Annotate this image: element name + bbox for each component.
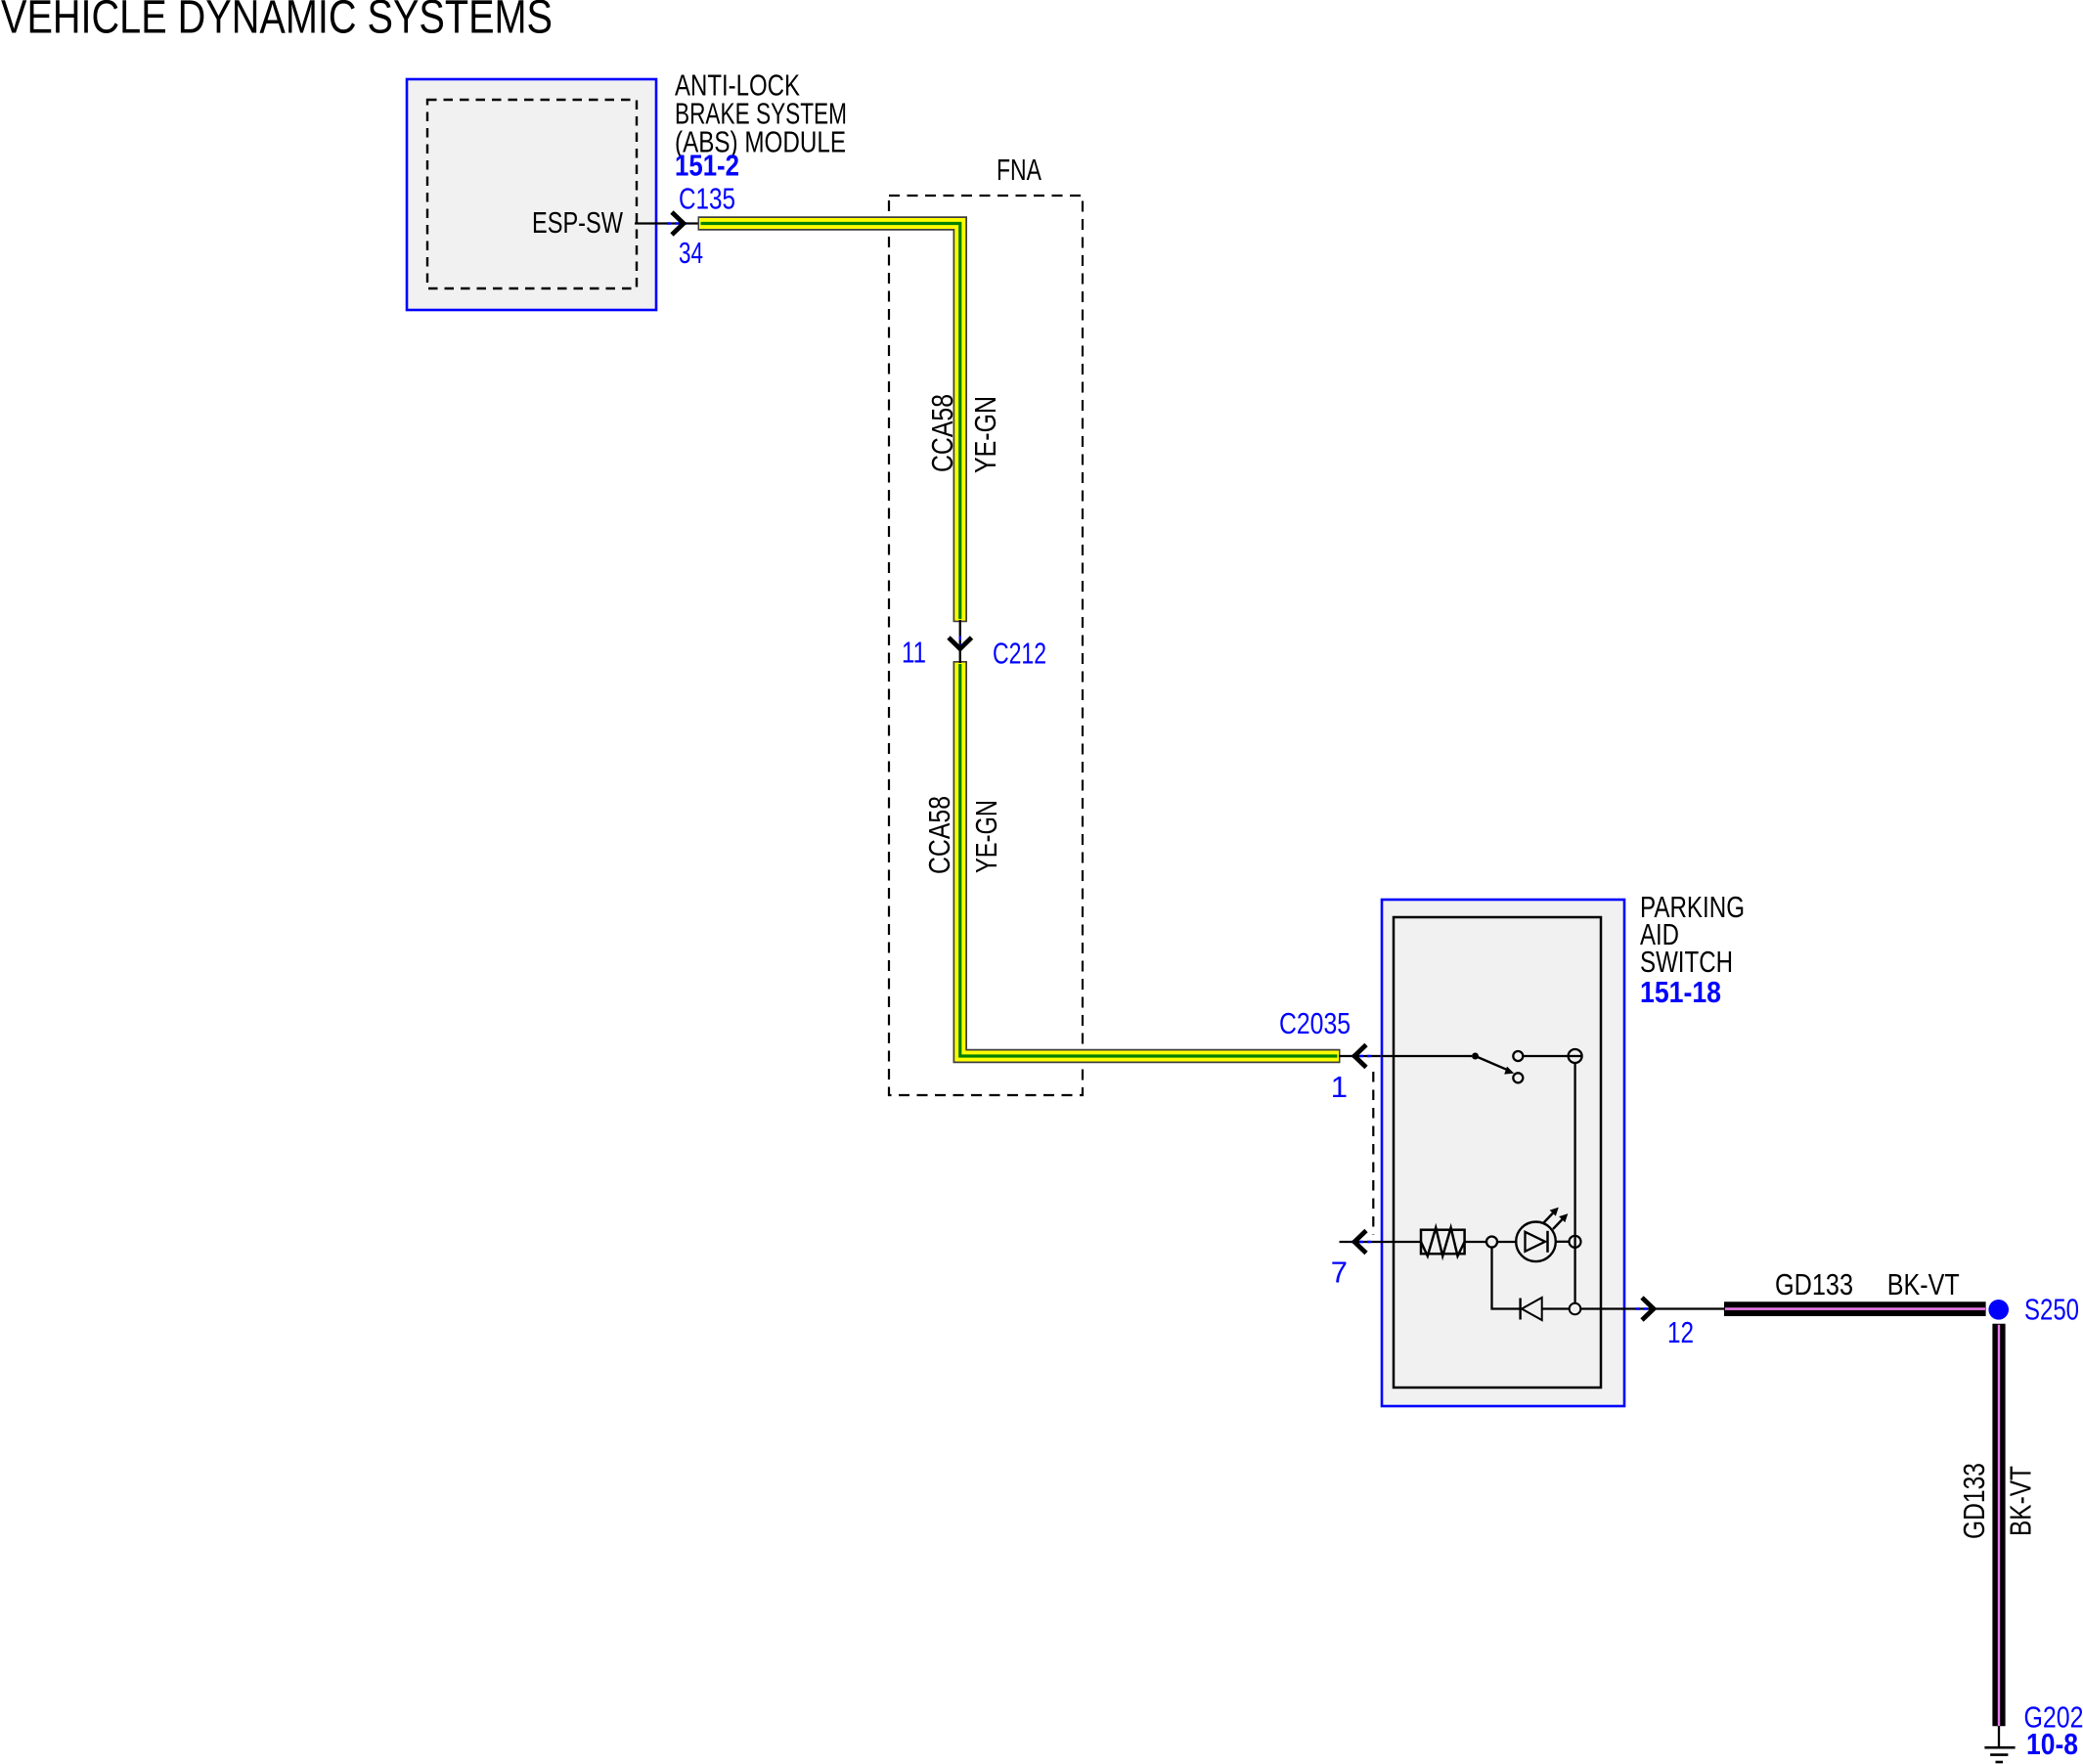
svg-text:BK-VT: BK-VT bbox=[2004, 1466, 2038, 1536]
svg-text:FNA: FNA bbox=[997, 153, 1041, 187]
diode cathode bar bbox=[1519, 1299, 1521, 1320]
svg-text:S250: S250 bbox=[2024, 1293, 2079, 1327]
connector C212 blue dash bbox=[959, 637, 962, 652]
FNA dashed box bbox=[889, 196, 1083, 1095]
parking aid switch inner box bbox=[1394, 917, 1601, 1388]
wire resistor to junction bbox=[1465, 1241, 1486, 1243]
switch upper contact bbox=[1513, 1051, 1523, 1061]
wire GD133 BK-VT vertical bbox=[1992, 1324, 2005, 1727]
svg-text:ESP-SW: ESP-SW bbox=[532, 205, 624, 240]
splice S250 bbox=[1988, 1300, 2009, 1320]
pin 1 lead into switch bbox=[1339, 1055, 1475, 1057]
svg-text:151-2: 151-2 bbox=[675, 149, 739, 183]
diode triangle bbox=[1522, 1298, 1542, 1320]
switch lower contact bbox=[1513, 1073, 1523, 1082]
svg-text:GD133: GD133 bbox=[1775, 1267, 1853, 1301]
svg-text:34: 34 bbox=[679, 236, 703, 270]
switch wire pin1 row inside box bbox=[1382, 1055, 1472, 1057]
switch lever bbox=[1476, 1056, 1510, 1071]
wire LED to terminal circle B bbox=[1556, 1241, 1570, 1243]
wire junction to LED bbox=[1497, 1241, 1518, 1243]
svg-text:C212: C212 bbox=[993, 637, 1046, 671]
svg-text:CCA58: CCA58 bbox=[922, 796, 956, 874]
wire GD133 BK-VT horizontal bbox=[1724, 1301, 1986, 1316]
ABS module box 151-2 bbox=[407, 79, 656, 310]
pin 12 lead out bbox=[1580, 1307, 1724, 1309]
svg-text:YE-GN: YE-GN bbox=[968, 396, 1002, 473]
connector C135 arrow bbox=[672, 212, 684, 235]
pin 7 lead bbox=[1340, 1241, 1422, 1243]
switch common dot bbox=[1472, 1053, 1479, 1060]
wire YE-GN lower segment bbox=[960, 661, 1341, 1056]
wire pin 34 lead bbox=[635, 222, 700, 224]
ground G202 lead bbox=[1998, 1726, 2000, 1747]
svg-text:BK-VT: BK-VT bbox=[1887, 1267, 1960, 1301]
connector arrow pin 12 bbox=[1642, 1298, 1654, 1320]
parking aid switch box 151-18 bbox=[1382, 900, 1624, 1406]
LED arrow 1 bbox=[1544, 1213, 1554, 1223]
wire contact to terminal bbox=[1523, 1055, 1568, 1057]
connector C2035 dashed link pin1-pin7 bbox=[1372, 1072, 1374, 1235]
terminal circle B bbox=[1570, 1236, 1581, 1248]
svg-text:SWITCH: SWITCH bbox=[1640, 945, 1733, 979]
svg-text:C2035: C2035 bbox=[1279, 1006, 1351, 1040]
connector C2035 blue dash pin 7 bbox=[1352, 1241, 1372, 1244]
switch lever arrowhead bbox=[1504, 1067, 1514, 1075]
ground symbol bbox=[1984, 1746, 2015, 1749]
right vertical wire inside switch bbox=[1573, 1063, 1575, 1303]
svg-text:151-18: 151-18 bbox=[1640, 975, 1721, 1009]
wire junction A down to diode row bbox=[1492, 1248, 1520, 1309]
resistor bbox=[1421, 1230, 1465, 1255]
wire diode to junction C bbox=[1542, 1307, 1570, 1309]
svg-text:CCA58: CCA58 bbox=[925, 394, 959, 472]
connector blue dash pin 12 bbox=[1636, 1307, 1657, 1310]
LED arrow 2 bbox=[1553, 1219, 1563, 1230]
junction circle C bbox=[1570, 1303, 1581, 1315]
connector C2035 arrow pin 1 bbox=[1354, 1045, 1366, 1068]
connector C135 blue dash bbox=[667, 222, 687, 225]
svg-text:12: 12 bbox=[1667, 1315, 1694, 1349]
svg-text:YE-GN: YE-GN bbox=[969, 800, 1003, 873]
LED circle bbox=[1516, 1222, 1556, 1262]
LED triangle bbox=[1526, 1232, 1546, 1252]
terminal crossed circle bbox=[1569, 1049, 1582, 1063]
svg-text:VEHICLE DYNAMIC SYSTEMS: VEHICLE DYNAMIC SYSTEMS bbox=[1, 0, 553, 44]
ABS module inner dashed box bbox=[427, 100, 637, 288]
connector C212 link line bbox=[959, 620, 961, 663]
LED cathode bar bbox=[1546, 1231, 1549, 1253]
svg-text:1: 1 bbox=[1331, 1070, 1348, 1104]
connector C2035 arrow pin 7 bbox=[1354, 1231, 1366, 1254]
svg-text:10-8: 10-8 bbox=[2026, 1727, 2078, 1761]
svg-text:C135: C135 bbox=[679, 182, 735, 216]
connector C212 arrow bbox=[949, 638, 972, 649]
connector C2035 blue dash pin 1 bbox=[1352, 1055, 1372, 1058]
junction circle A bbox=[1486, 1237, 1497, 1248]
svg-text:11: 11 bbox=[902, 636, 926, 670]
wire YE-GN upper segment bbox=[698, 224, 960, 623]
svg-text:7: 7 bbox=[1331, 1256, 1348, 1290]
svg-text:GD133: GD133 bbox=[1957, 1463, 1991, 1539]
